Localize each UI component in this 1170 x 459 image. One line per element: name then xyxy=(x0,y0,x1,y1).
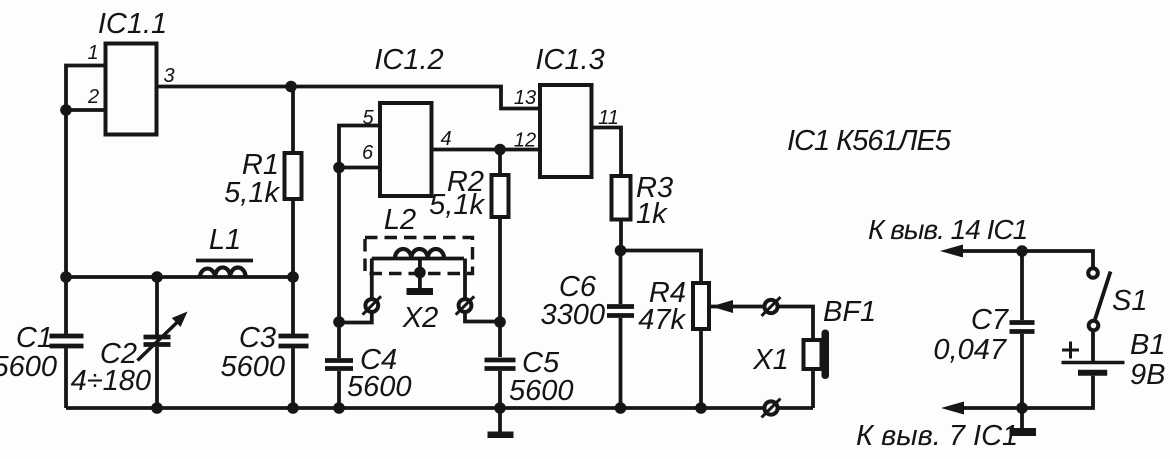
svg-text:12: 12 xyxy=(514,130,536,152)
svg-text:9В: 9В xyxy=(1130,359,1165,391)
node junction tank C2 xyxy=(151,271,163,283)
svg-text:L2: L2 xyxy=(384,204,416,236)
svg-text:5,1k: 5,1k xyxy=(429,189,485,221)
capacitor C5 xyxy=(485,360,516,408)
wire L2 right lead down xyxy=(465,259,500,322)
wire pin 4 to pin 12 xyxy=(432,148,541,152)
wire R4 top lead xyxy=(621,251,702,284)
svg-text:5,1k: 5,1k xyxy=(224,177,280,209)
svg-text:C1: C1 xyxy=(16,322,53,354)
node junction L2 right lead xyxy=(494,316,506,328)
svg-text:1k: 1k xyxy=(636,198,668,230)
svg-text:X2: X2 xyxy=(402,302,438,334)
connector X1 upper contact xyxy=(762,297,781,316)
wire BF1 lower lead xyxy=(811,369,815,408)
svg-text:47k: 47k xyxy=(638,304,686,336)
wire R1 upper lead xyxy=(291,87,295,154)
svg-text:S1: S1 xyxy=(1112,285,1147,317)
svg-text:1: 1 xyxy=(87,42,98,64)
svg-text:5600: 5600 xyxy=(347,371,412,403)
svg-text:C3: C3 xyxy=(239,322,276,354)
svg-text:6: 6 xyxy=(362,142,374,164)
node L2 tap dot xyxy=(414,267,426,279)
resistor R3 xyxy=(612,176,631,220)
inductor L1 core bar xyxy=(196,259,253,263)
svg-text:4÷180: 4÷180 xyxy=(71,365,151,397)
capacitor C4 xyxy=(325,361,353,409)
svg-text:C7: C7 xyxy=(971,304,1010,336)
ground symbol below C5 xyxy=(488,408,514,438)
svg-text:X1: X1 xyxy=(752,344,788,376)
wire input loop pins 1-2 of IC1.1 xyxy=(66,66,106,111)
IC1.1 gate box xyxy=(106,44,157,135)
node junction bottom R4 xyxy=(695,402,707,414)
wire battery to bottom power rail xyxy=(964,376,1093,408)
resistor R1 xyxy=(285,153,302,199)
speaker BF1 body xyxy=(804,340,822,369)
wire power top rail xyxy=(963,251,1093,267)
connector X2 right contact xyxy=(456,296,475,314)
node junction tank left xyxy=(60,271,72,283)
node junction IC1.1 inputs xyxy=(60,104,72,116)
wire left vertical from IC1.1 inputs to C1 xyxy=(64,110,68,334)
capacitor C7 xyxy=(1010,323,1035,409)
node junction R2 top xyxy=(494,144,506,156)
wire bottom rail xyxy=(66,406,813,410)
svg-text:3300: 3300 xyxy=(540,299,605,331)
plus sign battery xyxy=(1062,342,1079,359)
wire tank row horizontal xyxy=(66,275,293,279)
wire L2 center tap xyxy=(418,259,422,289)
node junction bottom C5 xyxy=(494,402,506,414)
svg-text:5600: 5600 xyxy=(0,351,57,383)
inductor L1 xyxy=(200,267,246,277)
wire R2 lower lead to C5 xyxy=(498,217,502,357)
speaker BF1 bar xyxy=(822,330,830,380)
node junction C7 bottom xyxy=(1016,402,1028,414)
wire vertical pin6 to C4 xyxy=(337,168,341,359)
resistor R4 potentiometer body xyxy=(693,283,709,329)
node junction C7 top xyxy=(1016,245,1028,257)
svg-text:B1: B1 xyxy=(1130,329,1165,361)
svg-text:13: 13 xyxy=(514,87,536,109)
svg-text:IC1 К561ЛЕ5: IC1 К561ЛЕ5 xyxy=(787,125,952,157)
node junction bottom C3 xyxy=(287,402,299,414)
svg-text:5600: 5600 xyxy=(220,351,285,383)
svg-text:IC1.2: IC1.2 xyxy=(374,44,443,76)
capacitor C1 xyxy=(50,336,84,408)
resistor R2 xyxy=(492,175,509,217)
svg-text:5600: 5600 xyxy=(509,375,574,407)
switch S1 xyxy=(1088,268,1110,330)
svg-text:IC1.1: IC1.1 xyxy=(98,8,167,40)
chassis bar below C7 xyxy=(1010,408,1037,436)
wire C6 upper lead xyxy=(619,251,623,305)
connector X1 lower contact xyxy=(762,399,781,418)
capacitor C2 variable xyxy=(144,337,171,408)
node junction R3 C6 R4 xyxy=(615,245,627,257)
arrow C2 adjustment xyxy=(138,312,188,361)
wire C2 upper lead xyxy=(155,277,159,335)
wire R4 wiper line to BF1 xyxy=(711,307,813,341)
capacitor C3 xyxy=(279,336,309,408)
svg-text:К выв. 7 IC1: К выв. 7 IC1 xyxy=(856,420,1018,452)
battery B1 negative plate xyxy=(1078,370,1107,376)
svg-text:3: 3 xyxy=(163,65,174,87)
svg-text:BF1: BF1 xyxy=(823,296,876,328)
IC1.2 gate box xyxy=(380,103,432,196)
node junction bottom C2 xyxy=(151,402,163,414)
node junction bottom C6 xyxy=(615,402,627,414)
wire switch to battery xyxy=(1091,331,1095,362)
svg-text:0,047: 0,047 xyxy=(933,334,1007,366)
svg-text:4: 4 xyxy=(440,128,451,150)
wire C7 upper lead xyxy=(1020,251,1024,320)
wire R2 upper lead xyxy=(498,150,502,176)
wire R1 lower lead xyxy=(291,199,295,277)
svg-text:2: 2 xyxy=(87,86,99,108)
arrow to pin 7 xyxy=(941,402,964,415)
node junction IC1.2 inputs xyxy=(333,162,345,174)
IC1.3 gate box xyxy=(540,85,592,177)
svg-text:L1: L1 xyxy=(209,224,241,256)
node junction L2 left lead xyxy=(333,316,345,328)
wire pin 11 to R3 xyxy=(592,128,622,177)
capacitor C6 xyxy=(607,307,634,409)
svg-text:IC1.3: IC1.3 xyxy=(535,44,604,76)
wire C3 upper lead xyxy=(291,277,295,334)
inductor L2 shield dashed box xyxy=(365,238,473,274)
arrow to pin 14 xyxy=(940,245,963,258)
chassis bar L2 tap xyxy=(407,288,434,295)
svg-text:К выв. 14 IC1: К выв. 14 IC1 xyxy=(868,214,1027,245)
wire R4 lower lead xyxy=(699,329,703,408)
node junction top rail R1 xyxy=(285,81,297,93)
node junction tank right xyxy=(287,271,299,283)
node junction bottom C4 xyxy=(333,402,345,414)
wire R3 lower lead xyxy=(619,220,623,251)
wire input loop pins 5-6 of IC1.2 xyxy=(339,126,380,168)
wire top rail from pin 3 to pin 13 of IC1.3 xyxy=(157,87,541,109)
arrow R4 wiper xyxy=(711,300,733,313)
connector X2 left contact xyxy=(363,296,382,314)
wire L2 left lead down xyxy=(339,259,372,323)
inductor L2 xyxy=(372,249,464,259)
battery B1 positive plate xyxy=(1062,361,1125,364)
